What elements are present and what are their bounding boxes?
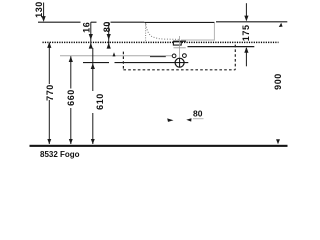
drain offset dimension arrowhead left — [167, 118, 173, 122]
basin profile curve (dotted) — [146, 24, 180, 39]
console underside dotted line — [43, 41, 279, 43]
tap centerline vertical — [179, 36, 181, 58]
dimension 610 line lower — [92, 113, 94, 144]
dimension 80 line — [108, 22, 110, 46]
svg-text:16: 16 — [82, 22, 92, 33]
siphon dashed box left edge — [122, 52, 124, 70]
dimension 610 up arrowhead — [91, 63, 95, 69]
dimension 80 down arrowhead — [107, 34, 111, 40]
dimension 660 line lower — [70, 108, 72, 144]
small tilted arrow right — [279, 23, 283, 27]
svg-text:610: 610 — [95, 93, 105, 110]
tap cross horizontal — [174, 47, 186, 49]
basin top edge — [144, 21, 214, 23]
dimension 660 up arrowhead — [69, 56, 73, 62]
drain offset dimension arrowhead right — [186, 118, 191, 121]
svg-text:80: 80 — [193, 108, 203, 118]
floor line — [30, 145, 288, 147]
dimension 770 line upper — [48, 43, 50, 84]
dimension 660 line upper — [70, 56, 72, 88]
basin inner bottom line — [181, 39, 214, 41]
gray underline for 80 — [193, 118, 204, 120]
drain mid dark line right — [115, 62, 189, 64]
drain circle — [175, 58, 184, 67]
dimension 175 lower line — [245, 48, 247, 66]
dimension 16 up arrowhead — [89, 43, 93, 49]
dimension 175 lower arrowhead — [244, 47, 248, 53]
svg-text:8532 Fogo: 8532 Fogo — [40, 150, 80, 159]
drain vertical bar — [179, 58, 181, 67]
small circle right — [183, 54, 187, 58]
dimension 130 arrowhead — [42, 16, 46, 22]
basin rectangle left edge — [145, 23, 147, 41]
drain mid dark line left — [83, 62, 109, 64]
small circle left — [172, 54, 176, 58]
dimension 130 vertical line — [43, 3, 45, 17]
overflow gray line — [60, 55, 172, 57]
basin bottom dark line — [188, 46, 255, 48]
basin rectangle right edge — [213, 23, 215, 41]
datum line (top horizontal reference line) — [38, 21, 287, 23]
dimension 610 down arrowhead — [91, 139, 95, 144]
dimension 16 down arrowhead — [89, 34, 93, 40]
dimension 16 line — [90, 22, 92, 47]
tap shank U outline — [173, 42, 181, 45]
dimension 900 down arrowhead at floor — [276, 139, 280, 144]
small up arrow mid — [113, 52, 116, 56]
dimension 770 line lower — [48, 100, 50, 144]
dimension 610 line upper — [92, 48, 94, 91]
svg-text:130: 130 — [34, 1, 44, 18]
dimension 770 down arrowhead — [47, 139, 51, 144]
dimension 175 upper line — [245, 3, 247, 16]
dimension 770 up arrowhead — [47, 42, 51, 48]
dimension 175 upper arrowhead — [244, 16, 248, 22]
svg-text:770: 770 — [45, 84, 55, 101]
overflow dark segment — [150, 56, 166, 58]
tap hole dark bar — [173, 40, 186, 42]
svg-text:175: 175 — [241, 24, 251, 41]
svg-text:660: 660 — [66, 89, 76, 106]
dimension 80 up arrowhead — [107, 43, 111, 49]
svg-text:900: 900 — [273, 73, 283, 90]
siphon dashed box bottom edge — [123, 69, 235, 71]
svg-text:80: 80 — [102, 21, 112, 32]
siphon dashed box right edge — [234, 45, 236, 70]
dimension 660 down arrowhead — [69, 139, 73, 144]
